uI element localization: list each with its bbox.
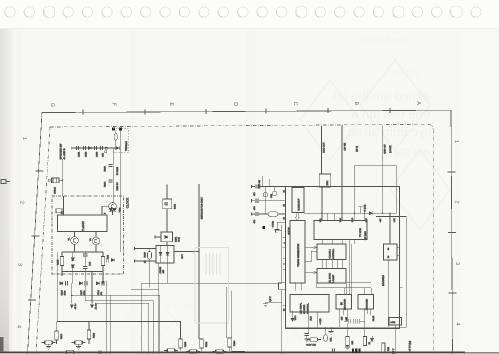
- svg-text:LED DISPL: LED DISPL: [299, 302, 302, 314]
- svg-text:3: 3: [454, 262, 460, 265]
- wire vertical x231.7: [231, 290, 233, 338]
- wire jog bottom x232: [232, 347, 245, 351]
- capacitor C103: [95, 146, 97, 150]
- svg-text:R105: R105: [56, 259, 59, 265]
- ground pin12: [277, 222, 286, 229]
- wire D201 to D202: [166, 242, 168, 246]
- ground R520: [345, 347, 350, 350]
- ground sym R115: [76, 347, 81, 350]
- wire bus L1 y283.5: [142, 282, 282, 284]
- wire row y252: [62, 251, 103, 253]
- resistor R232 vertical: [200, 339, 203, 348]
- svg-text:B101: B101: [174, 203, 177, 209]
- svg-text:T500mA: T500mA: [125, 141, 128, 151]
- svg-text:A2 1+: A2 1+: [74, 303, 77, 309]
- stub pin e: [316, 312, 318, 328]
- ground C510: [304, 339, 309, 342]
- pilot lamp circle on chain: [105, 147, 107, 149]
- diode D100 on chain: [116, 146, 119, 149]
- wire enc stub1: [363, 309, 365, 321]
- svg-text:CLOCK 1: CLOCK 1: [328, 248, 331, 258]
- capacitor C109: [83, 267, 87, 269]
- wire V103 emitter: [95, 245, 97, 252]
- svg-text:DECODER: DECODER: [343, 299, 346, 310]
- capacitor C102: [84, 146, 86, 150]
- svg-text:LCK: LCK: [393, 218, 396, 223]
- block SYNC SEP: [317, 269, 346, 284]
- svg-text:1: 1: [21, 137, 27, 140]
- wire bus L4 y295.4: [72, 295, 160, 354]
- off-page arrow a: [70, 305, 73, 309]
- diode inside D201: [165, 235, 168, 238]
- svg-text:SPEAKER SW: SPEAKER SW: [59, 143, 62, 160]
- node T1 top terminal: [166, 184, 168, 187]
- ground stub 4,5v: [263, 304, 268, 307]
- IC bottom bus y327.3: [286, 326, 407, 328]
- block SLIDE BUFFER: [292, 188, 304, 213]
- wire D202 right to +5V rail: [174, 251, 199, 253]
- svg-text:R120: R120: [143, 251, 146, 257]
- svg-text:NL SYNC: NL SYNC: [328, 273, 331, 283]
- svg-text:C102: C102: [84, 151, 87, 157]
- ground sym R114: [46, 347, 51, 350]
- dashed box CLOCK module: [52, 196, 124, 274]
- svg-text:E: E: [168, 102, 174, 106]
- svg-text:CN102: CN102: [53, 186, 56, 194]
- svg-text:(a): (a): [340, 302, 343, 305]
- ruler tick top 6: [389, 108, 391, 113]
- diode D101: [88, 146, 91, 149]
- marker triangles V101 emitter: [109, 208, 112, 211]
- svg-text:MOD OUT: MOD OUT: [323, 142, 326, 153]
- svg-text:& RAMP: & RAMP: [332, 274, 335, 283]
- IC right pin stub 87: [400, 286, 403, 288]
- svg-text:2: 2: [19, 201, 25, 204]
- margin connector stub: [1, 180, 10, 184]
- wire timing to sandcastle b: [300, 283, 302, 290]
- svg-text:C126: C126: [60, 289, 63, 295]
- wire vert x342 from border: [341, 126, 343, 221]
- pad P1 power entry: [112, 128, 115, 131]
- wire V102 collector: [74, 232, 76, 237]
- resistor R231 h bottom: [164, 349, 178, 352]
- svg-text:4: 4: [455, 323, 461, 326]
- diode D107 group c: [96, 282, 99, 285]
- ruler tick top 5: [327, 108, 329, 113]
- resistor R112 vertical: [55, 331, 58, 340]
- stub +5 with terminal: [360, 207, 362, 213]
- svg-text:C: C: [292, 102, 298, 106]
- junction node chain: [113, 147, 114, 148]
- ruler tick top 2: [144, 109, 146, 114]
- diode D102: [71, 258, 74, 261]
- wire x281.9 vertical upper: [281, 225, 283, 283]
- diode D104 small: [111, 258, 114, 261]
- block TIMING GENERATOR: [290, 221, 305, 284]
- wire phase pins right: [397, 247, 400, 249]
- pin stub IC left low: [283, 304, 286, 306]
- diode D202b: [166, 252, 169, 255]
- svg-text:R112: R112: [60, 333, 63, 339]
- wire T1 down: [166, 186, 168, 199]
- svg-text:A2 1+: A2 1+: [94, 303, 97, 309]
- wire timing to sandcastle a: [295, 283, 297, 290]
- svg-text:4 L AND B: 4 L AND B: [63, 148, 66, 159]
- capacitor C302 round: [272, 191, 276, 195]
- top rail second y216.5: [376, 217, 406, 328]
- svg-text:TV MOD: TV MOD: [359, 228, 362, 237]
- wire decoders top rail2: [318, 282, 371, 284]
- ruler tick left 2: [32, 235, 40, 237]
- wire vertical x106: [105, 281, 107, 354]
- wire left lower into D202: [135, 260, 157, 262]
- svg-text:D201: D201: [174, 236, 177, 242]
- wire branch x89 down: [88, 322, 90, 331]
- svg-text:470u: 470u: [83, 290, 86, 296]
- ruler tick top 4: [265, 109, 267, 114]
- wire service vertical long: [198, 186, 200, 340]
- svg-text:A: A: [415, 101, 421, 105]
- wire vert x354.4: [353, 166, 355, 221]
- transistor V101: [109, 203, 117, 211]
- wire vert x396.4: [395, 166, 397, 214]
- crystal row2 terminal: [251, 199, 253, 202]
- crystal row1 terminal: [251, 185, 253, 188]
- resistor R510 h: [307, 338, 321, 341]
- wire down to arrow a: [71, 283, 73, 303]
- svg-text:R230: R230: [184, 341, 187, 347]
- crystal row2 capacitor: [256, 199, 258, 203]
- block PHASE right small: [384, 244, 398, 260]
- wire vert x390: [389, 213, 391, 244]
- svg-text:2: 2: [454, 201, 460, 204]
- svg-text:12V NE: 12V NE: [343, 142, 346, 150]
- timing arrow link1: [305, 247, 317, 249]
- svg-text:G: G: [49, 103, 55, 107]
- stub pin encoder2: [366, 309, 368, 314]
- link vertical x265.5: [265, 187, 267, 215]
- svg-text:R113: R113: [92, 332, 95, 338]
- wire mod feeds down x327: [326, 213, 328, 220]
- resistor R114 bottom: [42, 341, 56, 344]
- svg-text:Z501: Z501: [326, 180, 329, 186]
- wire fuse to node: [115, 131, 117, 134]
- diode D202a: [159, 252, 162, 255]
- ruler tick right 2: [448, 232, 456, 234]
- block VIDEO MODULATOR wide: [314, 221, 367, 240]
- svg-text:GRN +5V: GRN +5V: [384, 144, 387, 154]
- svg-text:REG 5V: REG 5V: [116, 182, 119, 191]
- junction wire left leg: [61, 272, 63, 277]
- wire row3 left: [252, 213, 256, 215]
- wire speaker line down: [61, 159, 63, 196]
- diode D106 group b: [79, 282, 82, 285]
- capacitor C110 small: [106, 258, 108, 262]
- PCB dashed outline right: [432, 130, 434, 354]
- wire V101 emitter: [112, 210, 114, 215]
- wire chain exits to bus: [158, 263, 160, 354]
- small box a: [279, 283, 286, 290]
- punch holes (decorative): [5, 7, 481, 17]
- ground stub below bus mid: [329, 332, 334, 335]
- wire mod extra stub: [333, 213, 335, 220]
- crystal X1 body: [268, 212, 277, 217]
- svg-text:+12V LED: +12V LED: [306, 343, 316, 346]
- svg-text:+5 (+D): +5 (+D): [363, 204, 366, 212]
- wire clk internal extra a: [326, 260, 328, 269]
- stub pin decoder2: [347, 309, 349, 321]
- block COUNT CLK: [317, 244, 346, 260]
- terminal stub to IC vertical: [275, 229, 277, 232]
- svg-text:4 MHz: 4 MHz: [271, 221, 274, 227]
- wire vertical x110: [109, 295, 111, 354]
- svg-text:+ LED: + LED: [319, 318, 322, 325]
- wire bus L6 y302.8: [95, 303, 149, 354]
- svg-text:hye enm all ne: hye enm all ne: [347, 124, 432, 139]
- block ENCODER: [358, 295, 374, 310]
- wire clk internal extra b: [336, 260, 338, 269]
- capacitor C105 on node V113: [108, 165, 112, 167]
- svg-text:TIMING GENERATOR: TIMING GENERATOR: [297, 243, 300, 266]
- resistor R116 bottom edge: [63, 351, 77, 354]
- svg-text:ad ms: ad ms: [165, 301, 195, 313]
- wire left upper into D202: [135, 248, 157, 250]
- svg-text:RF OSC: RF OSC: [364, 231, 367, 240]
- svg-text:6,3 V: 6,3 V: [392, 348, 395, 354]
- pin stubs timing left: [283, 237, 286, 269]
- svg-text:CLOCK: CLOCK: [125, 197, 129, 209]
- wire down to arrow b: [91, 283, 93, 303]
- resistor R115 bottom: [72, 341, 86, 344]
- ghost bleed-through marks: [125, 60, 450, 350]
- capacitor C510: [305, 334, 309, 336]
- svg-text:3: 3: [17, 263, 23, 266]
- svg-text:VCO: VCO: [294, 315, 297, 320]
- svg-text:CONTROL: CONTROL: [332, 248, 335, 259]
- connector box X502: [389, 318, 402, 326]
- svg-text:TL494C: TL494C: [81, 221, 85, 231]
- svg-text:+5 TV (2x): +5 TV (2x): [408, 341, 411, 352]
- connector CN102 pin circle: [48, 179, 50, 181]
- svg-text:(12 V): (12 V): [356, 146, 359, 152]
- svg-text:4,5 V: 4,5 V: [269, 296, 272, 302]
- diode D105 group a: [60, 282, 63, 285]
- series caps C520 C521 C522: [344, 319, 365, 324]
- wire enc stub2: [369, 309, 371, 315]
- resistor R530 v bottom: [382, 343, 385, 352]
- wire D201 left stub: [155, 236, 161, 238]
- wire row y271.5: [62, 271, 103, 273]
- crystal row3 terminal: [251, 212, 253, 215]
- svg-text:VCC: VCC: [339, 218, 342, 223]
- svg-text:4: 4: [16, 325, 22, 328]
- terminal bar left lower: [134, 259, 136, 262]
- stub pin d: [307, 311, 309, 334]
- pad P2 power entry: [119, 128, 122, 131]
- capacitor C106 on node V113: [108, 180, 112, 182]
- resistor R233 h bottom: [186, 350, 200, 353]
- block SANDCASTLE: [290, 295, 329, 313]
- wire CN102 to clock box: [59, 179, 62, 181]
- resistor R105: [60, 257, 63, 266]
- svg-text:SAA5010: SAA5010: [382, 274, 385, 286]
- arrow slide to timing: [295, 213, 300, 221]
- resistor R235 h bottom: [213, 350, 227, 353]
- svg-text:COUNTD: COUNTD: [303, 304, 306, 314]
- wire mod to clk stubs: [321, 240, 323, 245]
- wire row1: [252, 186, 256, 188]
- resistor R230 vertical: [179, 339, 182, 348]
- diode D103: [71, 265, 74, 268]
- transistor V102: [71, 237, 79, 245]
- crystal row3 capacitor: [256, 212, 258, 216]
- wire sync to decoders top rail: [317, 287, 372, 289]
- svg-text:C101: C101: [77, 151, 80, 157]
- svg-text:1489: 1489: [391, 321, 397, 324]
- ruler tick top 3: [205, 109, 207, 114]
- transistor V103: [92, 237, 100, 245]
- wire X502 down: [395, 325, 397, 354]
- wire vertical x141.6: [141, 283, 143, 354]
- wire vert x382.4 from border: [381, 125, 383, 213]
- relay B101 body: [163, 199, 172, 209]
- connector mini box on pin16 wire: [56, 209, 62, 213]
- svg-text:5V REG: 5V REG: [116, 167, 119, 175]
- tiny box below lamp: [105, 151, 107, 153]
- black caps cluster: [352, 349, 354, 354]
- svg-text:470u: 470u: [64, 290, 67, 296]
- timing arrow link2: [305, 251, 317, 262]
- box D202 dual diode: [156, 246, 174, 264]
- box D201 modulator small: [161, 232, 173, 242]
- svg-text:4148: 4148: [177, 236, 180, 242]
- wire V101 collector: [112, 201, 114, 203]
- svg-text:AUX: AUX: [310, 316, 313, 321]
- off-page arrow b: [90, 305, 93, 309]
- svg-text:ENCODER: ENCODER: [365, 299, 368, 310]
- svg-text:C127: C127: [80, 289, 83, 295]
- capacitor C121 oval: [148, 252, 152, 260]
- wire pair down right of blocks: [349, 240, 351, 295]
- wire V102 emitter: [74, 244, 76, 252]
- svg-text:C128: C128: [97, 289, 100, 295]
- capacitor C301 round: [263, 193, 267, 197]
- svg-text:mae tun dse: mae tun dse: [360, 34, 410, 44]
- wire horiz y165.7: [354, 165, 396, 167]
- resistor R521 v: [363, 337, 366, 346]
- wire bus LA y289.3: [131, 288, 159, 290]
- resistor R107: [101, 257, 104, 266]
- top rail bus y213: [304, 212, 396, 214]
- timing arrow link3: [305, 272, 317, 274]
- terminal bar left upper: [134, 247, 136, 250]
- svg-text:1: 1: [453, 140, 459, 143]
- wire stubs through clock box bottom: [56, 252, 58, 283]
- scan bottom edge shadow: [0, 352, 465, 354]
- svg-text:C120B: C120B: [159, 266, 162, 273]
- wire x280 vertical to bottom: [281, 289, 283, 354]
- resistor R234 vertical: [228, 338, 231, 347]
- ruler tick top 1: [82, 110, 84, 115]
- stub pin decoder1: [338, 309, 340, 327]
- svg-text:OSC 4M: OSC 4M: [258, 180, 261, 189]
- svg-text:+5 V: +5 V: [181, 254, 184, 259]
- wire vertical x226.9: [226, 287, 228, 338]
- wire B101 down: [166, 209, 168, 232]
- capacitor C131 bottom edge: [99, 350, 101, 354]
- ruler tick right 1: [448, 171, 456, 173]
- stub pin decoder3: [343, 309, 345, 315]
- svg-text:SLIDE BUF: SLIDE BUF: [298, 198, 301, 210]
- svg-text:ten ita: ten ita: [392, 67, 420, 78]
- junction dots on bus: [321, 213, 391, 214]
- pad mark near IC left: [263, 226, 265, 229]
- wire mod feeds down x368: [364, 213, 366, 220]
- caps C530 bottom: [333, 348, 335, 352]
- border right line: [451, 110, 453, 354]
- wire below phase block: [387, 260, 389, 327]
- capacitor C101: [77, 146, 79, 150]
- diode D501 on bus: [369, 212, 372, 215]
- svg-text:R104: R104: [103, 181, 106, 187]
- border left line: [28, 113, 43, 354]
- IC bottom pin row: stub VCO: [292, 311, 294, 319]
- wire row2: [252, 200, 256, 202]
- pin 16 stub: [63, 196, 65, 215]
- svg-text:(LOCK): (LOCK): [389, 145, 392, 153]
- svg-text:C103: C103: [95, 151, 98, 157]
- svg-text:R103: R103: [103, 165, 106, 171]
- wire clk to sync: [321, 260, 323, 269]
- PCB dashed outline top: [50, 124, 433, 130]
- connector CN102 body: [52, 178, 60, 183]
- IC D101 clock chip body: [58, 215, 108, 232]
- border top ruler line: [42, 110, 451, 112]
- wire main vertical node V113: [112, 148, 114, 202]
- svg-text:D: D: [232, 102, 238, 106]
- wire V103 collector: [95, 232, 97, 238]
- IC N501 outer body: [286, 187, 400, 329]
- wire input chain horizontal: [72, 147, 121, 149]
- svg-text:B: B: [353, 102, 359, 106]
- ruler tick left 3: [28, 299, 36, 301]
- block DECODER: [336, 295, 352, 310]
- capacitor C511 oval: [324, 335, 328, 342]
- resistor R113 vertical: [87, 330, 90, 339]
- service line terminal: [198, 184, 200, 187]
- crystal row1 capacitor: [256, 184, 258, 188]
- ruler tick right 3: [449, 292, 457, 294]
- wire X1 to IC: [278, 213, 286, 215]
- svg-text:OSC: OSC: [351, 217, 354, 222]
- svg-text:SERVICE POS ONLY: SERVICE POS ONLY: [201, 197, 204, 220]
- capacitor C104: [101, 146, 103, 150]
- resistor R520 v: [346, 337, 349, 346]
- svg-text:10,32: 10,32: [372, 315, 375, 321]
- wire V101 base: [102, 206, 109, 215]
- ruler tick left 1: [36, 170, 44, 172]
- wire crystal feed up: [262, 176, 264, 187]
- terminal chain start: [71, 146, 73, 149]
- wire pad2 down: [119, 131, 121, 252]
- capacitor C108: [83, 254, 87, 256]
- svg-text:R234: R234: [233, 340, 236, 346]
- ghost pcb box faint: [195, 248, 229, 324]
- filter box FL501: [319, 174, 331, 187]
- fuse F1: [114, 133, 117, 140]
- diode D520: [370, 338, 373, 341]
- frame group: [28, 108, 457, 354]
